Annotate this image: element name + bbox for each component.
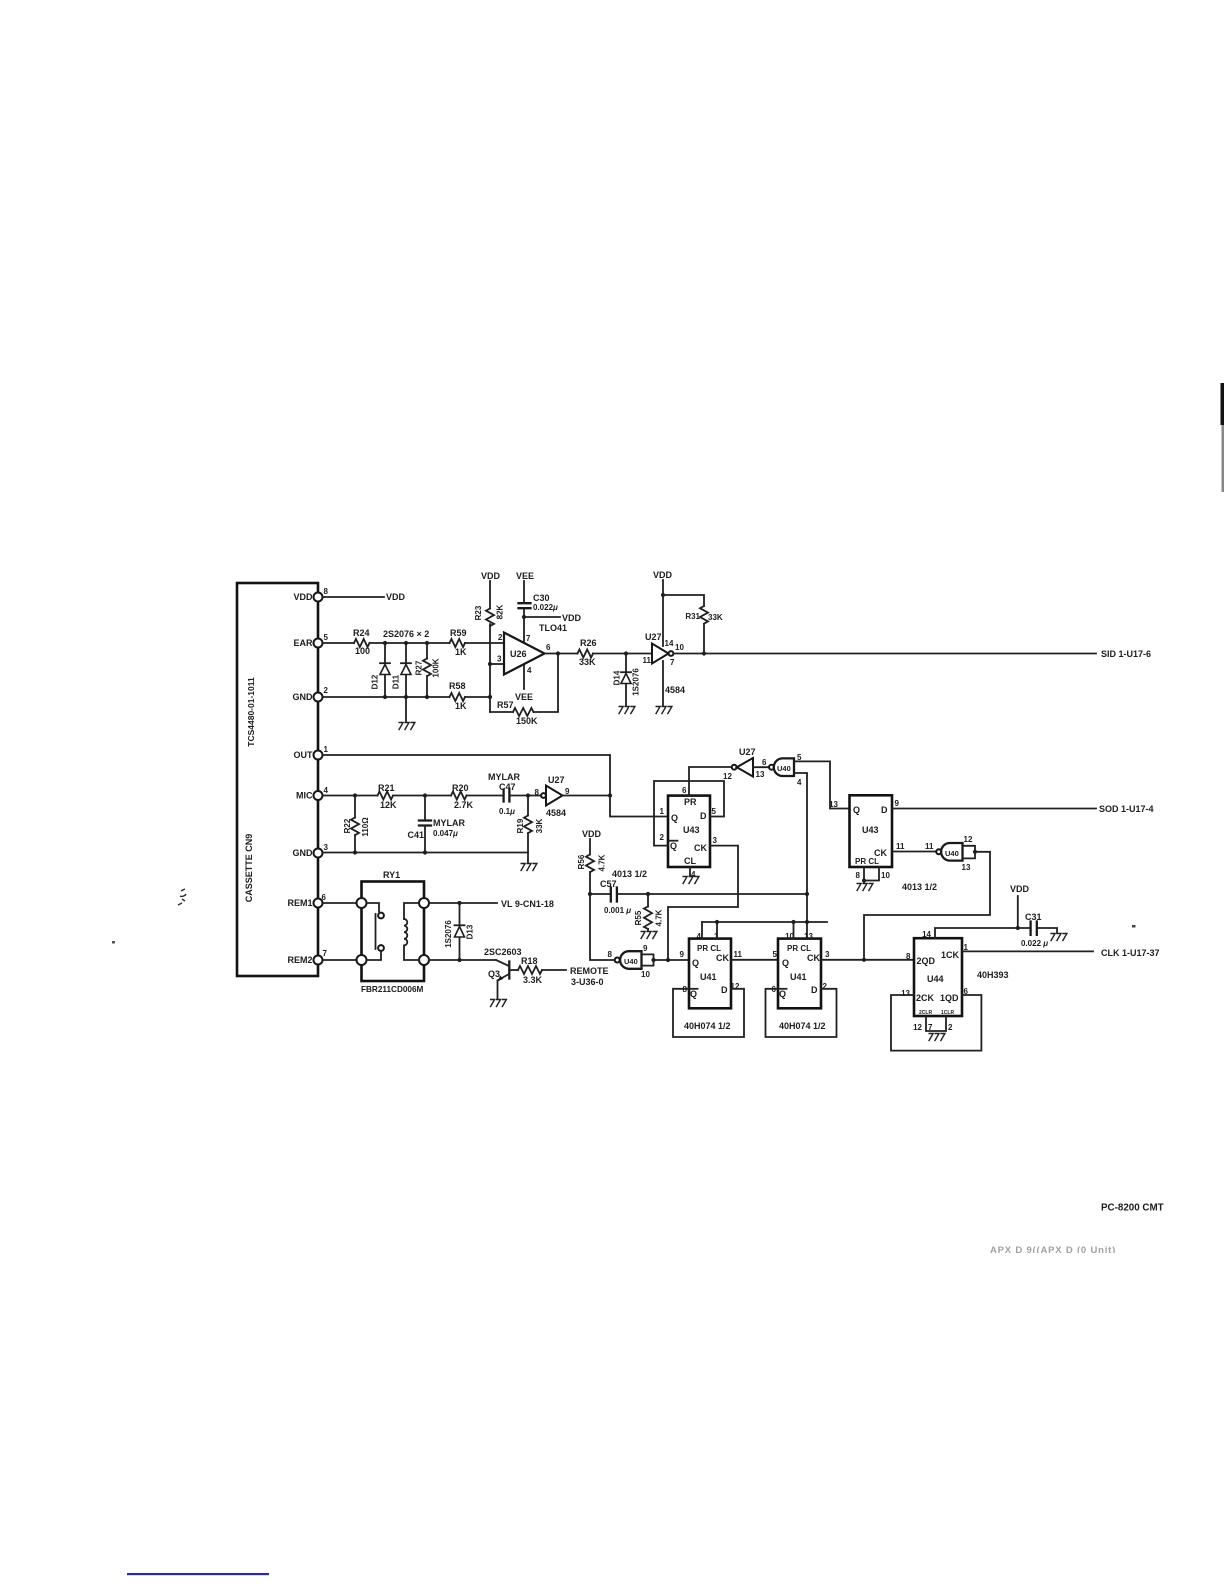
svg-text:14: 14 [665, 639, 674, 648]
resistor R58 [449, 681, 467, 711]
node junction VDD/R31 branch [661, 593, 665, 597]
svg-text:5: 5 [324, 633, 329, 642]
node junction pin8 bracket [862, 879, 866, 883]
wire MIC line [323, 795, 502, 797]
svg-text:U40: U40 [945, 849, 959, 858]
wire U40 tied inputs 12,13 [963, 846, 976, 859]
svg-text:U41: U41 [700, 972, 717, 982]
svg-text:SID 1-U17-6: SID 1-U17-6 [1101, 649, 1151, 659]
svg-text:5: 5 [773, 950, 778, 959]
svg-text:U27: U27 [645, 632, 662, 642]
node junction C57/R55 [646, 892, 650, 896]
resistor R20 [451, 783, 474, 810]
svg-text:U43: U43 [862, 825, 879, 835]
wire OUT line to U43 Q pin1 [323, 755, 669, 817]
svg-text:Q: Q [690, 989, 697, 999]
svg-text:8: 8 [608, 950, 613, 959]
node junction CK-routing on Q line [666, 958, 670, 962]
scan artifact right edge bar [1221, 383, 1224, 425]
svg-text:Q: Q [692, 958, 699, 968]
svg-text:3: 3 [825, 950, 830, 959]
wire VDD down to U27 pin14 [662, 580, 664, 646]
ground below R19 [521, 864, 537, 872]
pin EAR (5) of CN9 [293, 633, 328, 648]
wire relay to Q3 collector line [429, 959, 496, 961]
wire SOD output line [892, 808, 1096, 810]
svg-text:1S2076: 1S2076 [632, 668, 641, 696]
svg-text:R57: R57 [497, 700, 514, 710]
svg-text:3: 3 [713, 836, 718, 845]
pin GND (3) of CN9 [293, 843, 329, 858]
wire U44 pin14 to VDD/C31 [935, 928, 1030, 938]
wire CLK output line [962, 950, 1093, 952]
svg-text:2: 2 [660, 833, 665, 842]
svg-text:VDD: VDD [293, 592, 313, 602]
svg-text:R58: R58 [449, 681, 466, 691]
svg-text:12K: 12K [380, 800, 397, 810]
flip-flop U41 first (40H074) [680, 932, 743, 1008]
svg-text:6: 6 [682, 786, 687, 795]
svg-text:1: 1 [324, 745, 329, 754]
node junction D12-GND [383, 695, 387, 699]
svg-text:6: 6 [322, 893, 327, 902]
wire R19 foot to ground [527, 853, 529, 864]
svg-text:C47: C47 [499, 782, 516, 792]
svg-text:150K: 150K [516, 716, 538, 726]
stray dot left [112, 941, 115, 944]
NAND U40 (left-pointing at U43 CK) [936, 835, 973, 872]
svg-text:PR CL: PR CL [787, 944, 811, 953]
svg-text:4: 4 [527, 666, 532, 675]
relay switch contacts [367, 903, 384, 960]
svg-text:D: D [700, 811, 707, 821]
svg-text:40H393: 40H393 [977, 970, 1009, 980]
svg-text:U41: U41 [790, 972, 807, 982]
stray pen mark left [178, 889, 186, 905]
svg-text:0.022 μ: 0.022 μ [1021, 939, 1048, 948]
svg-text:2: 2 [498, 633, 503, 642]
svg-text:VDD: VDD [582, 829, 602, 839]
resistor R55 [634, 894, 664, 931]
svg-text:CASSETTE CN9: CASSETTE CN9 [244, 834, 254, 903]
svg-text:33K: 33K [708, 613, 723, 622]
svg-text:U44: U44 [927, 974, 944, 984]
op-amp U26 [497, 633, 551, 676]
svg-text:11: 11 [643, 656, 652, 665]
svg-text:11: 11 [925, 842, 934, 851]
svg-text:R26: R26 [580, 638, 597, 648]
svg-text:U40: U40 [777, 764, 791, 773]
ground below R55 [641, 932, 657, 940]
node junction R27-GND [425, 695, 429, 699]
ground below D14 [619, 707, 635, 715]
svg-text:0.047μ: 0.047μ [433, 829, 458, 838]
svg-text:MYLAR: MYLAR [488, 772, 520, 782]
relay coil terminal bottom-right [419, 955, 429, 965]
inverter U27 (left-pointing, 12/13) [723, 747, 767, 781]
node junction R58/R23 [488, 695, 492, 699]
node junction D11-GND [404, 695, 408, 699]
wire U27 pin7 to ground [662, 661, 664, 706]
wire U40 tied inputs 9,10 [642, 954, 654, 966]
wire D11 to ground [405, 697, 407, 722]
wire REM2 to relay [323, 959, 357, 961]
wire U43 CK pin3 routing down [668, 846, 738, 960]
svg-text:14: 14 [922, 930, 931, 939]
wire U43 CK pin11 to U40 [892, 851, 936, 853]
flip-flop U43 second half (4013) [829, 795, 905, 880]
resistor R19 [516, 796, 544, 853]
svg-text:6: 6 [762, 758, 767, 767]
wire R26 to U27 input [593, 653, 652, 655]
svg-text:C31: C31 [1025, 912, 1042, 922]
svg-text:7: 7 [670, 658, 675, 667]
svg-text:VDD: VDD [1010, 884, 1030, 894]
svg-text:CK: CK [694, 843, 707, 853]
node junction C47/R19 [526, 793, 530, 797]
pin REM2 (7) of CN9 [287, 949, 327, 965]
pin GND (2) of CN9 [293, 686, 329, 702]
svg-text:REM1: REM1 [287, 898, 312, 908]
svg-text:D: D [811, 985, 818, 995]
counter U44 (40H393) [901, 930, 968, 1016]
svg-text:1QD: 1QD [940, 993, 959, 1003]
wire U43 Qbar feedback to D [654, 781, 724, 846]
svg-text:0.001 μ: 0.001 μ [604, 906, 631, 915]
node junction U40 inputs tie [651, 958, 655, 962]
pin MIC (4) of CN9 [296, 786, 329, 801]
relay contact terminal top-left [357, 898, 367, 908]
svg-text:Q3: Q3 [488, 969, 500, 979]
svg-text:8: 8 [324, 587, 329, 596]
wire C57 node to U40 pin4 vertical [648, 893, 807, 895]
svg-text:PC-8200 CMT: PC-8200 CMT [1101, 1203, 1164, 1214]
capacitor C30 [519, 581, 559, 612]
ground below D11 [399, 723, 415, 731]
wire to VDD label [524, 616, 560, 618]
svg-text:8: 8 [906, 952, 911, 961]
resistor R24 [353, 628, 370, 656]
svg-text:CL: CL [684, 856, 696, 866]
svg-text:8: 8 [856, 871, 861, 880]
svg-text:Q: Q [779, 989, 786, 999]
svg-text:R22: R22 [343, 818, 352, 833]
resistor R21 [378, 783, 398, 810]
svg-text:40H074 1/2: 40H074 1/2 [779, 1021, 826, 1031]
svg-text:GND: GND [293, 848, 314, 858]
svg-text:4584: 4584 [546, 808, 566, 818]
svg-text:5: 5 [712, 807, 717, 816]
svg-text:R21: R21 [378, 783, 395, 793]
wire VDD stub [1017, 896, 1019, 928]
connector CN9 body [237, 583, 318, 976]
svg-text:4: 4 [697, 932, 702, 941]
svg-text:3-U36-0: 3-U36-0 [571, 977, 604, 987]
svg-text:10: 10 [641, 970, 650, 979]
svg-text:6: 6 [546, 643, 551, 652]
svg-text:1CLR: 1CLR [941, 1010, 954, 1016]
svg-text:13: 13 [901, 989, 910, 998]
wire U41 PR/CL stubs [702, 922, 717, 939]
node junction pin7/VDD branch [522, 615, 526, 619]
svg-text:VEE: VEE [515, 692, 533, 702]
NAND U40 (left-pointing, remote logic) [608, 944, 651, 979]
wire VDD to R23 and down to pin3 node [489, 581, 491, 712]
svg-text:GND: GND [293, 692, 314, 702]
svg-text:4.7K: 4.7K [598, 854, 607, 871]
wire GND(2) line [323, 696, 491, 698]
wire CK link U41a to U41b [731, 959, 778, 961]
svg-text:2S2076 × 2: 2S2076 × 2 [383, 629, 429, 639]
svg-text:PR: PR [684, 797, 697, 807]
svg-text:2SC2603: 2SC2603 [484, 947, 522, 957]
pin VDD (8) of CN9 [293, 587, 328, 602]
resistor R22 [343, 796, 370, 853]
pin REM1 (6) of CN9 [287, 893, 326, 908]
svg-text:11: 11 [896, 842, 905, 851]
svg-text:33K: 33K [579, 657, 596, 667]
node junction U41b pin10 [791, 920, 795, 924]
wire SID output line [674, 653, 1097, 655]
svg-text:SOD 1-U17-4: SOD 1-U17-4 [1099, 804, 1154, 814]
wire U40 pin5 input from U43 second Q [794, 761, 850, 808]
svg-text:D13: D13 [466, 924, 475, 939]
capacitor C57 [590, 879, 648, 915]
ground right of C31 [1051, 934, 1067, 942]
svg-text:33K: 33K [535, 818, 544, 833]
svg-text:U27: U27 [739, 747, 756, 757]
ground below Q3 emitter [490, 1000, 506, 1008]
wire U41b PR stub pin10 [793, 922, 795, 939]
node junction MIC/R22 [353, 793, 357, 797]
svg-text:Q: Q [671, 813, 678, 823]
footer partial text APX-D [985, 1245, 1160, 1261]
wire EAR line [323, 642, 505, 644]
wire VDD branch to R31 [663, 595, 704, 606]
node junction R56/C57/U40 output [588, 892, 592, 896]
node junction R22/GND3 [353, 850, 357, 854]
node junction D14 [624, 651, 628, 655]
relay coil [404, 903, 419, 960]
svg-text:R20: R20 [452, 783, 469, 793]
svg-text:D: D [881, 805, 888, 815]
node junction U40 inputs [973, 850, 977, 854]
svg-text:REMOTE: REMOTE [570, 966, 609, 976]
svg-text:82K: 82K [496, 604, 505, 619]
ground below U27 [656, 707, 672, 715]
svg-text:RY1: RY1 [383, 870, 400, 880]
svg-text:4.7K: 4.7K [655, 909, 664, 926]
svg-text:U27: U27 [548, 775, 565, 785]
svg-text:D11: D11 [392, 674, 401, 689]
inverter U27 (MIC, 4584) [535, 775, 570, 818]
svg-text:1: 1 [660, 807, 665, 816]
node junction D13 bottom [457, 958, 461, 962]
svg-text:REM2: REM2 [287, 955, 312, 965]
relay RY1 body [361, 870, 424, 994]
capacitor C31 [1021, 912, 1057, 948]
svg-text:R59: R59 [450, 628, 467, 638]
wire op-amp output [545, 653, 578, 655]
blue underline bottom left [127, 1573, 269, 1575]
wire R56 node down to U40 output [590, 894, 614, 960]
svg-text:3.3K: 3.3K [523, 975, 543, 985]
svg-text:100: 100 [355, 646, 370, 656]
wire pin3 stub [490, 663, 504, 665]
relay contact terminal bottom-left [357, 955, 367, 965]
svg-text:U40: U40 [624, 957, 638, 966]
svg-text:VEE: VEE [516, 571, 534, 581]
wire U44 CLR pins to ground [926, 1016, 946, 1031]
svg-text:R24: R24 [353, 628, 370, 638]
node junction EAR-R27 [425, 641, 429, 645]
ground below U43 CL [683, 877, 699, 885]
diode D11 [392, 643, 412, 697]
svg-text:R31: R31 [685, 612, 700, 621]
node junction pin13 vertical [805, 920, 809, 924]
svg-text:VDD: VDD [653, 570, 673, 580]
svg-text:7: 7 [526, 634, 531, 643]
capacitor C47 [488, 772, 540, 816]
resistor R23 [474, 604, 505, 626]
wire U43 PR pin6 up to U27 output [689, 767, 732, 796]
svg-text:13: 13 [756, 770, 765, 779]
svg-text:D14: D14 [613, 670, 622, 685]
svg-text:10: 10 [675, 643, 684, 652]
svg-text:C30: C30 [533, 593, 550, 603]
flip-flop U41 second (40H074) [772, 932, 830, 1008]
wire PR/CL common line [702, 921, 827, 923]
node junction OUT/U27 output [608, 793, 612, 797]
stray dot right of C31 [1132, 925, 1136, 928]
svg-text:0.1μ: 0.1μ [499, 807, 515, 816]
svg-text:VDD: VDD [386, 592, 406, 602]
resistor R56 [577, 839, 607, 894]
svg-text:2: 2 [948, 1023, 953, 1032]
svg-text:CK: CK [716, 953, 729, 963]
svg-text:7: 7 [323, 949, 328, 958]
svg-text:100K: 100K [432, 658, 441, 677]
svg-text:VL 9-CN1-18: VL 9-CN1-18 [501, 899, 554, 909]
node junction VDD/C31 line [1016, 926, 1020, 930]
svg-text:R56: R56 [577, 854, 586, 869]
wire U27 output to OUT node [563, 795, 611, 797]
svg-text:VDD: VDD [481, 571, 501, 581]
svg-text:R19: R19 [516, 818, 525, 833]
svg-text:U26: U26 [510, 649, 527, 659]
resistor R26 [578, 638, 597, 667]
svg-text:FBR211CD006M: FBR211CD006M [361, 985, 424, 994]
svg-text:12: 12 [964, 835, 973, 844]
node junction U40 routing/CK line [862, 958, 866, 962]
wire U44 1QD pin6 to 2CK pin13 loop [891, 995, 981, 1051]
wire REM1 to relay [323, 902, 357, 904]
svg-text:TCS4480-01-1011: TCS4480-01-1011 [246, 677, 256, 747]
svg-text:CK: CK [807, 953, 820, 963]
node junction R23/pin3 [488, 662, 492, 666]
svg-text:4: 4 [324, 786, 329, 795]
resistor R27 [415, 643, 441, 697]
svg-text:4013 1/2: 4013 1/2 [902, 882, 937, 892]
wire U41 Qbar-D feedback loop [673, 989, 744, 1037]
node junction output/R57 [556, 651, 560, 655]
diode D13 [444, 903, 475, 960]
svg-text:2CK: 2CK [916, 993, 935, 1003]
ground below U43 second [857, 884, 873, 892]
svg-text:2: 2 [324, 686, 329, 695]
svg-text:D: D [721, 985, 728, 995]
svg-text:2QD: 2QD [917, 956, 936, 966]
diode D12 [371, 643, 391, 697]
svg-text:U43: U43 [683, 825, 700, 835]
wire U40 inputs routing to CK line [864, 852, 990, 960]
svg-text:8: 8 [535, 788, 540, 797]
svg-text:PR CL: PR CL [697, 944, 721, 953]
svg-text:13: 13 [829, 800, 838, 809]
node junction D13 top [457, 901, 461, 905]
svg-text:EAR: EAR [293, 638, 313, 648]
wire GND(3) line [323, 852, 529, 854]
svg-text:R55: R55 [634, 910, 643, 925]
svg-text:3: 3 [497, 655, 502, 664]
svg-text:12: 12 [723, 772, 732, 781]
resistor R18 [518, 956, 566, 985]
wire U27 input to U40 output [753, 766, 769, 768]
wire U40 pin4 input from C57 node [794, 773, 807, 939]
wire relay to VL [429, 902, 497, 904]
wire U43 CL pin4 to ground [689, 867, 691, 876]
svg-text:R27: R27 [415, 660, 424, 675]
svg-text:MYLAR: MYLAR [433, 818, 465, 828]
svg-text:9: 9 [895, 799, 900, 808]
svg-text:OUT: OUT [294, 750, 314, 760]
capacitor C41 [407, 796, 465, 853]
svg-text:9: 9 [643, 944, 648, 953]
svg-text:C41: C41 [407, 830, 424, 840]
svg-text:2.7K: 2.7K [454, 800, 474, 810]
flip-flop U43 first half (4013) [660, 786, 718, 879]
wire op-amp pin4 down [523, 665, 525, 689]
ground below U44 [929, 1034, 945, 1042]
NAND U40 (left-pointing, feeds U27) [769, 753, 802, 787]
svg-text:TLO41: TLO41 [539, 623, 567, 633]
svg-text:4: 4 [797, 778, 802, 787]
svg-text:MIC: MIC [296, 791, 313, 801]
svg-text:CLK 1-U17-37: CLK 1-U17-37 [1101, 948, 1160, 958]
svg-text:1K: 1K [455, 647, 467, 657]
wire VDD pin to VDD label [323, 596, 385, 598]
svg-text:Q: Q [782, 958, 789, 968]
svg-text:13: 13 [804, 932, 813, 941]
resistor R31 [685, 606, 723, 654]
svg-text:R23: R23 [474, 605, 483, 620]
svg-text:12: 12 [913, 1023, 922, 1032]
svg-text:Q: Q [670, 841, 677, 851]
transistor Q3 2SC2603 [484, 947, 522, 999]
relay coil terminal top-right [419, 898, 429, 908]
svg-text:1K: 1K [455, 701, 467, 711]
svg-text:13: 13 [962, 863, 971, 872]
resistor R57 feedback [490, 654, 558, 727]
svg-text:VDD: VDD [562, 613, 582, 623]
svg-text:7: 7 [928, 1023, 933, 1032]
node junction R21/C41 [423, 793, 427, 797]
svg-text:4584: 4584 [665, 685, 685, 695]
svg-text:0.022μ: 0.022μ [533, 603, 558, 612]
svg-text:1CK: 1CK [941, 950, 960, 960]
node junction CL pin1 [715, 920, 719, 924]
diode D14 [613, 654, 641, 707]
